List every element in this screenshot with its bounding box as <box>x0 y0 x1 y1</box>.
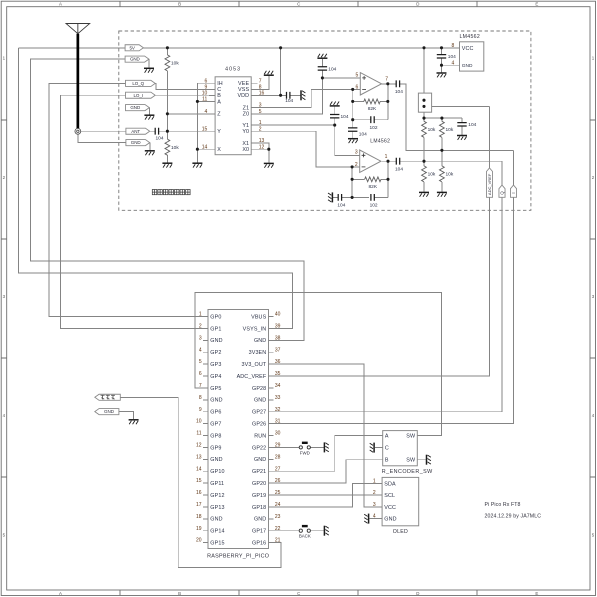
module A1 RASPBERRY_PI_PICO <box>207 310 269 560</box>
svg-text:3: 3 <box>373 502 376 508</box>
svg-text:LO_I: LO_I <box>134 93 143 98</box>
svg-text:3V3EN: 3V3EN <box>249 350 267 356</box>
wire IH-A-X ground chain <box>197 83 215 163</box>
wire OLED GND to ground <box>369 518 377 520</box>
svg-text:3: 3 <box>259 103 262 109</box>
wire bias divider chain <box>166 48 168 163</box>
svg-text:3: 3 <box>199 335 202 341</box>
net label GND (top GND) <box>125 56 149 62</box>
ground mic GND label <box>129 420 139 424</box>
svg-text:C: C <box>385 446 389 452</box>
capacitor C ant 104 <box>155 128 164 142</box>
IC U2 4053 analog switch <box>215 67 251 155</box>
junction U1B- fb R <box>351 178 354 181</box>
svg-text:104: 104 <box>341 114 349 120</box>
svg-text:D: D <box>416 591 419 596</box>
svg-text:14: 14 <box>202 144 208 150</box>
svg-text:LO_Q: LO_Q <box>132 81 144 86</box>
junction U1A- in <box>351 88 354 91</box>
svg-text:10: 10 <box>202 90 208 96</box>
wire 5V rail <box>19 47 456 49</box>
wire U1B ground-leg caps row <box>333 196 388 198</box>
svg-text:2: 2 <box>199 324 202 330</box>
svg-text:GP27: GP27 <box>252 410 266 416</box>
junction bias/Z <box>166 112 169 115</box>
wire bias node to pin Z <box>167 113 215 115</box>
wire GP5 to encoder switch SW <box>195 292 441 435</box>
svg-text:BACK: BACK <box>299 534 311 539</box>
capacitor C series U1A- 104 <box>348 128 367 137</box>
svg-text:GP0: GP0 <box>210 314 221 320</box>
svg-text:26: 26 <box>275 478 281 484</box>
svg-text:5: 5 <box>259 109 262 115</box>
svg-text:VSYS_IN: VSYS_IN <box>243 326 267 332</box>
svg-text:104: 104 <box>395 89 403 95</box>
svg-text:R_ENCODER_SW: R_ENCODER_SW <box>382 469 433 475</box>
wire BACK button to ground <box>311 530 324 532</box>
svg-text:10k: 10k <box>171 61 179 67</box>
svg-text:A: A <box>59 591 62 596</box>
junction 5V/VDD <box>279 46 282 49</box>
svg-text:VBUS: VBUS <box>251 314 266 320</box>
wire U1B + bypass <box>334 107 336 115</box>
svg-text:10k: 10k <box>428 127 436 133</box>
svg-text:16: 16 <box>259 90 265 96</box>
svg-text:11: 11 <box>196 431 201 437</box>
svg-text:GP13: GP13 <box>210 505 224 511</box>
svg-text:GND: GND <box>104 409 115 414</box>
wire U1B feedback resistor leads <box>352 178 388 180</box>
svg-text:GP6: GP6 <box>210 410 221 416</box>
resistor R bias up-left 10k <box>422 121 436 137</box>
wire encoder SW2 to ground <box>422 459 426 461</box>
svg-text:X0: X0 <box>242 147 249 153</box>
svg-text:5: 5 <box>356 72 359 78</box>
resistor R bias low-right 10k <box>440 166 454 182</box>
wire LO_I left to GP1 <box>60 95 203 328</box>
svg-text:GND: GND <box>254 338 266 344</box>
wire jack to ADC_VREF label <box>424 105 490 107</box>
svg-text:GP14: GP14 <box>210 529 224 535</box>
wire coax shield to GND label <box>78 134 126 142</box>
svg-text:6: 6 <box>199 371 202 377</box>
svg-text:GP22: GP22 <box>252 445 266 451</box>
svg-text:GP1: GP1 <box>210 326 221 332</box>
net label GND (mid GND) <box>126 105 150 111</box>
svg-text:GND: GND <box>254 517 266 523</box>
junction Q line bias <box>422 160 425 163</box>
svg-text:GP12: GP12 <box>210 493 224 499</box>
svg-text:GP8: GP8 <box>210 433 221 439</box>
ground U1B + bypass cap (up) <box>330 102 340 106</box>
resistor R feedback U1B 82K <box>365 177 381 190</box>
junction 5V/decap <box>440 46 443 49</box>
wire GND label stub <box>148 59 150 68</box>
svg-text:C: C <box>297 591 300 596</box>
svg-text:GP15: GP15 <box>210 541 224 547</box>
svg-text:104: 104 <box>359 131 367 137</box>
svg-text:ADC_VREF: ADC_VREF <box>237 374 267 380</box>
net label ANT (ANT) <box>126 128 150 134</box>
capacitor C gndleg U1B 104 <box>337 194 345 209</box>
net label I (I) <box>510 185 516 197</box>
svg-text:104: 104 <box>395 166 403 172</box>
net label MIC (mic) <box>95 394 121 400</box>
junction VDD node <box>279 94 282 97</box>
junction decap/GND4 <box>440 64 443 67</box>
svg-text:23: 23 <box>275 514 281 520</box>
svg-text:VDD: VDD <box>237 93 249 99</box>
ground encoder C <box>370 443 374 453</box>
svg-text:LM4562: LM4562 <box>370 138 390 144</box>
svg-text:VCC: VCC <box>462 46 474 52</box>
svg-text:16: 16 <box>196 490 202 496</box>
svg-text:GND: GND <box>210 338 222 344</box>
svg-text:GP9: GP9 <box>210 445 221 451</box>
capacitor C gndleg U1B 102 <box>370 194 378 209</box>
wire U1B output junction to feedback <box>387 161 389 197</box>
svg-text:9: 9 <box>199 407 202 413</box>
svg-text:14: 14 <box>196 466 202 472</box>
junction U1A fb R right <box>386 100 389 103</box>
svg-text:5: 5 <box>199 359 202 365</box>
svg-text:1: 1 <box>385 154 388 160</box>
wire FWD button to ground <box>311 446 324 448</box>
svg-text:OLED: OLED <box>393 529 408 535</box>
svg-text:102: 102 <box>369 125 377 131</box>
capacitor C bypass U1A+ 104 <box>318 66 337 72</box>
svg-text:17: 17 <box>196 502 202 508</box>
junction bias/ANT-Y <box>166 130 169 133</box>
svg-text:GP5: GP5 <box>210 386 221 392</box>
ground OLED GND <box>364 514 368 524</box>
svg-text:15: 15 <box>202 126 208 132</box>
svg-text:SDA: SDA <box>384 481 396 487</box>
wire bias rail <box>424 118 462 135</box>
wire U1A + bypass <box>321 59 323 78</box>
wire U1A feedback resistor leads <box>353 100 388 102</box>
ground BACK button <box>324 526 328 536</box>
svg-text:3: 3 <box>355 150 358 156</box>
svg-text:5V: 5V <box>129 45 134 50</box>
junction jack/rail <box>422 117 425 120</box>
svg-text:15: 15 <box>196 478 202 484</box>
svg-text:B: B <box>178 591 181 596</box>
A1 pico pins <box>196 312 281 547</box>
svg-text:40: 40 <box>275 312 281 318</box>
junction I line bias <box>440 149 443 152</box>
junction U1B- gndleg <box>351 196 354 199</box>
svg-text:I: I <box>511 192 516 193</box>
svg-text:VEE: VEE <box>238 81 249 87</box>
junction U1A+ node <box>321 76 324 79</box>
ground under mid GND label <box>144 115 154 119</box>
svg-text:1: 1 <box>199 312 202 318</box>
svg-text:7: 7 <box>199 383 202 389</box>
net label LO_I (LO_I) <box>126 92 156 98</box>
svg-text:25: 25 <box>275 490 281 496</box>
net label GND (mic GND) <box>95 409 119 415</box>
svg-text:Y: Y <box>217 129 221 135</box>
svg-text:7: 7 <box>385 77 388 83</box>
svg-text:102: 102 <box>370 203 378 209</box>
svg-text:GND: GND <box>131 140 142 145</box>
resistor R bias low-left 10k <box>422 166 436 182</box>
resistor R bias upper 10k <box>165 55 179 71</box>
svg-text:GP26: GP26 <box>252 422 266 428</box>
wire VEE stub <box>251 82 257 84</box>
wire LO_Q to 4053 pin C <box>155 83 215 89</box>
wire X1 X0 to ground <box>251 143 269 163</box>
svg-text:28: 28 <box>275 454 281 460</box>
svg-text:104: 104 <box>448 54 456 60</box>
dashed box: quadrature mixer / detector section <box>119 31 531 210</box>
wire GP21 to encoder A <box>274 436 378 472</box>
svg-text:32: 32 <box>275 407 281 413</box>
svg-text:1: 1 <box>373 479 376 485</box>
wire LO_I to 4053 pin B <box>155 94 215 96</box>
svg-text:1: 1 <box>259 120 262 126</box>
svg-text:GP11: GP11 <box>210 481 224 487</box>
svg-text:C: C <box>297 2 300 7</box>
svg-text:GP4: GP4 <box>210 374 221 380</box>
rotary encoder SW R_ENCODER_SW <box>378 431 433 476</box>
svg-text:10k: 10k <box>171 145 179 151</box>
svg-text:39: 39 <box>275 324 281 330</box>
svg-text:GND: GND <box>254 398 266 404</box>
wire GP17 to BACK button <box>274 530 300 532</box>
resistor R bias up-right 10k <box>440 121 454 137</box>
ground VDD cap (right) <box>301 90 305 100</box>
ground U1B ground-leg (left) <box>328 192 332 202</box>
ground IH/A/X <box>192 163 202 167</box>
svg-text:24: 24 <box>275 502 281 508</box>
svg-text:18: 18 <box>196 514 202 520</box>
svg-text:36: 36 <box>275 359 281 365</box>
junction U1A out <box>386 82 389 85</box>
push button BACK (SW BACK) <box>299 526 311 539</box>
junction 5V/jack <box>422 46 425 49</box>
op-amp U1A (LM4562) <box>356 72 389 95</box>
svg-text:GP19: GP19 <box>252 493 266 499</box>
svg-text:20: 20 <box>196 538 202 544</box>
wire Y1 to op-amp U1B non-inverting input <box>251 118 360 155</box>
svg-text:Y0: Y0 <box>242 129 249 135</box>
svg-text:104: 104 <box>328 66 336 72</box>
svg-text:GND: GND <box>130 57 141 62</box>
svg-text:10k: 10k <box>446 172 454 178</box>
wire U1A output junction to feedback <box>387 84 389 120</box>
svg-text:GP18: GP18 <box>252 505 266 511</box>
wire encoder C to ground <box>375 447 378 449</box>
antenna AE1 <box>66 24 90 129</box>
svg-text:104: 104 <box>155 136 163 142</box>
capacitor C power 104 <box>437 54 456 60</box>
jack J2 <box>418 93 431 112</box>
svg-text:12: 12 <box>196 443 202 449</box>
wire 3V3_OUT to OLED VCC <box>274 364 383 507</box>
ground under top GND label <box>144 68 154 72</box>
wire U1B output <box>382 160 502 162</box>
wire GND label stub 3 <box>149 143 151 151</box>
ground below U1A- cap <box>348 139 358 143</box>
wire GND label stub (mic area) <box>119 412 134 420</box>
wire LO_Q left to GP0 <box>49 83 203 316</box>
svg-text:104: 104 <box>337 203 345 209</box>
wire U1B - node vertical <box>351 167 353 198</box>
svg-text:2: 2 <box>355 162 358 168</box>
capacitor C bias rail 104 <box>457 122 476 128</box>
junction rail/R2 <box>440 117 443 120</box>
svg-text:34: 34 <box>275 383 281 389</box>
svg-text:E: E <box>535 591 538 596</box>
svg-text:SW: SW <box>406 458 416 464</box>
svg-text:19: 19 <box>196 526 202 532</box>
svg-text:GND: GND <box>130 105 141 110</box>
ground FWD button <box>324 442 328 452</box>
wire U1A - node vertical <box>352 89 354 137</box>
svg-text:ANT: ANT <box>131 129 140 134</box>
wire GND label stub 2 <box>148 108 150 115</box>
junction U1B out <box>386 160 389 163</box>
svg-text:SCL: SCL <box>384 493 395 499</box>
svg-text:4: 4 <box>373 514 376 520</box>
svg-text:31: 31 <box>275 419 281 425</box>
wire GP22 to FWD button <box>274 446 300 448</box>
svg-text:Pi Pico Rx FT8: Pi Pico Rx FT8 <box>485 502 521 508</box>
junction X1X0 <box>267 148 270 151</box>
ground VSS (up) <box>264 71 274 75</box>
svg-text:GP7: GP7 <box>210 422 221 428</box>
svg-text:X: X <box>217 147 221 153</box>
wire GND label to pin38 <box>31 59 305 340</box>
wire U1A output <box>382 84 514 151</box>
ground X1/X0 <box>264 163 274 167</box>
wire 5V to jack <box>423 48 425 118</box>
wire GP18 to OLED SDA <box>274 483 378 507</box>
svg-text:38: 38 <box>275 335 281 341</box>
svg-text:B: B <box>178 2 181 7</box>
svg-text:B: B <box>217 93 221 99</box>
wire ADC_VREF vertical to pin 35 <box>274 106 490 376</box>
ground under ANT GND label <box>145 151 155 155</box>
wire GP16 to mic label <box>120 397 281 567</box>
wire Y0 to op-amp U1B inverting input <box>251 131 360 167</box>
ground encoder SW2 <box>427 455 431 465</box>
U2 4053 pins <box>202 78 265 153</box>
svg-text:GP21: GP21 <box>252 469 266 475</box>
svg-text:8: 8 <box>452 43 455 49</box>
display DS1 OLED <box>373 477 419 535</box>
ground bias divider bottom <box>162 163 172 167</box>
svg-text:B: B <box>385 458 389 464</box>
power unit U1 LM4562 VCC/GND <box>452 34 484 71</box>
op-amp U1B (LM4562) <box>355 150 388 173</box>
coax connector J1 <box>75 128 81 134</box>
svg-text:4: 4 <box>452 60 455 66</box>
junction U1B fb R right <box>386 178 389 181</box>
junction U1B- in <box>351 165 354 168</box>
wire VDD decoupling <box>251 48 300 96</box>
net label GND (ANT GND) <box>126 140 150 146</box>
wire Q net vertical to GP27 <box>274 161 503 412</box>
wire GP20 to encoder B <box>274 460 378 483</box>
svg-text:IH: IH <box>217 81 223 87</box>
wire 5V to VSYS_IN <box>19 48 293 329</box>
svg-text:SW: SW <box>406 433 416 439</box>
svg-text:6: 6 <box>205 78 208 84</box>
svg-text:21: 21 <box>275 538 281 544</box>
ground U1A + bypass cap (up) <box>317 54 327 58</box>
section caption (Japanese text) <box>152 190 190 195</box>
svg-text:6: 6 <box>356 84 359 90</box>
svg-text:GND: GND <box>210 517 222 523</box>
svg-text:GP28: GP28 <box>252 386 266 392</box>
junction 5V/bias <box>166 46 169 49</box>
svg-text:D: D <box>416 2 419 7</box>
svg-text:3V3_OUT: 3V3_OUT <box>241 362 266 368</box>
svg-text:37: 37 <box>275 347 281 353</box>
capacitor C out U1B 104 <box>395 158 403 173</box>
svg-text:2024.12.29 by JA7MLC: 2024.12.29 by JA7MLC <box>485 514 542 520</box>
ground bias rail cap <box>457 136 467 140</box>
svg-text:GND: GND <box>210 398 222 404</box>
push button FWD (SW FWD) <box>299 443 310 456</box>
wire U1A feedback cap leads <box>353 119 388 121</box>
ground low-right 10k <box>437 192 447 196</box>
wire LM4562 VCC decap <box>442 48 456 73</box>
svg-text:GND: GND <box>254 457 266 463</box>
junction U1A- fb C <box>351 118 354 121</box>
svg-text:10k: 10k <box>446 127 454 133</box>
svg-text:82K: 82K <box>368 106 377 112</box>
svg-text:104: 104 <box>468 122 476 128</box>
svg-text:GP2: GP2 <box>210 350 221 356</box>
resistor R feedback U1A 82K <box>364 99 380 112</box>
svg-text:7: 7 <box>259 78 262 84</box>
svg-text:GP16: GP16 <box>252 541 266 547</box>
svg-text:10k: 10k <box>428 172 436 178</box>
junction U1A- fb R <box>351 100 354 103</box>
wire VSS to ground <box>251 76 269 90</box>
capacitor C feedback U1A 102 <box>369 116 377 131</box>
wire ANT to coupling cap <box>81 130 156 132</box>
svg-text:13: 13 <box>196 454 202 460</box>
svg-text:A: A <box>59 2 62 7</box>
svg-text:ADC_VREF: ADC_VREF <box>487 173 492 195</box>
svg-text:Z0: Z0 <box>243 112 250 118</box>
svg-text:LM4562: LM4562 <box>460 34 481 40</box>
wire Z0 to op-amp U1A non-inverting input <box>251 78 360 114</box>
svg-text:GND: GND <box>462 63 473 69</box>
svg-text:30: 30 <box>275 431 281 437</box>
svg-text:FWD: FWD <box>300 450 310 455</box>
svg-text:4: 4 <box>199 347 202 353</box>
net label ADC_VREF (ADC_VREF) <box>486 168 492 197</box>
svg-text:GND: GND <box>210 457 222 463</box>
junction U1B+ node <box>333 124 336 127</box>
svg-text:VCC: VCC <box>384 505 396 511</box>
junction jack pin2 <box>422 105 425 108</box>
junction gnd chain X <box>196 148 199 151</box>
svg-text:27: 27 <box>275 466 281 472</box>
svg-text:Q: Q <box>499 191 504 195</box>
svg-text:4: 4 <box>205 109 208 115</box>
svg-text:22: 22 <box>275 526 281 532</box>
wire upper bias resistor leads <box>424 118 442 161</box>
svg-text:2: 2 <box>259 126 262 132</box>
svg-text:33: 33 <box>275 395 281 401</box>
